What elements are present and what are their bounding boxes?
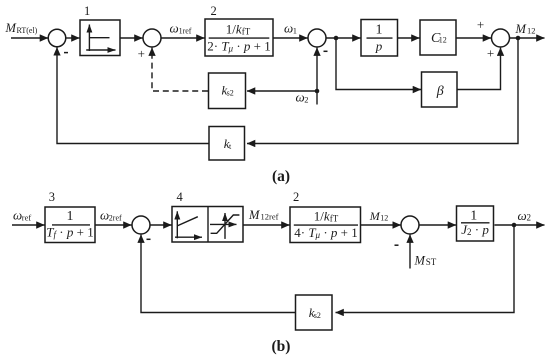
block 1 icon: x-axis arrow xyxy=(86,49,115,51)
label C12 xyxy=(431,31,447,46)
minus sign at Sb2 xyxy=(395,244,399,246)
dashed wire ks2 output to S2 bottom xyxy=(152,48,208,91)
label omega_2ref xyxy=(100,208,122,223)
svg-text:C12: C12 xyxy=(431,31,447,46)
wire block 1 to summing junction S2 xyxy=(120,37,143,39)
block 4 PI icon: x-axis arrow xyxy=(175,236,202,238)
svg-text:+: + xyxy=(477,17,484,32)
wire M_RT(el) input arrow into summing junction S1 xyxy=(11,37,48,39)
svg-text:ω2: ω2 xyxy=(518,208,532,223)
wire Sb1 to block 4 xyxy=(150,224,172,226)
svg-text:4· Tμ · p + 1: 4· Tμ · p + 1 xyxy=(294,225,358,240)
wire Sb2 to block J2p xyxy=(419,224,456,226)
label M12 (b) xyxy=(369,209,389,223)
summing junction S3 xyxy=(308,29,326,47)
svg-text:(b): (b) xyxy=(272,338,291,355)
wire omega_ref input arrow into block 3 xyxy=(12,224,45,226)
wire beta output up into S4 bottom xyxy=(457,48,501,90)
label 3 above block xyxy=(49,190,55,204)
block 2 (b) denominator xyxy=(294,225,358,240)
block 1 (P controller) xyxy=(80,20,120,56)
block 3 transfer function xyxy=(45,207,95,243)
caption (a) xyxy=(272,168,290,185)
block 4 limiter icon: y-axis arrow xyxy=(224,213,226,239)
summing junction S1 xyxy=(48,29,66,47)
label omega_2 (a) xyxy=(296,90,309,105)
svg-text:1: 1 xyxy=(67,209,74,224)
svg-text:ω2: ω2 xyxy=(296,90,309,105)
block 4 PI icon: y-axis arrow xyxy=(176,211,178,238)
wire S2 to block 2 xyxy=(161,37,205,39)
wire M_ST input up into Sb2 bottom xyxy=(409,235,411,269)
wire omega_2 input from below into S3 xyxy=(316,48,318,105)
svg-text:1/kfT: 1/kfT xyxy=(314,208,339,223)
block kt xyxy=(209,127,245,161)
svg-text:1/kfT: 1/kfT xyxy=(226,22,251,37)
feedback wire ks2 (b) left then up into Sb1 bottom xyxy=(141,235,296,313)
plus sign above left of S4 xyxy=(477,17,484,32)
summing junction S4 xyxy=(492,29,510,47)
svg-text:J2 · p: J2 · p xyxy=(461,222,489,237)
block 2 (b) fraction bar xyxy=(294,224,358,226)
block 1 icon: y-axis arrow xyxy=(88,25,90,52)
summing junction S2 xyxy=(143,29,161,47)
svg-text:(a): (a) xyxy=(272,168,290,185)
wire block 3 to summing junction Sb1 xyxy=(95,224,132,226)
svg-text:+: + xyxy=(487,46,494,61)
label 2 above block xyxy=(211,4,217,18)
minus sign at S3 xyxy=(324,50,328,52)
wire S3 to block 1/p xyxy=(326,37,361,39)
minus sign at S1 xyxy=(64,52,68,54)
svg-text:2: 2 xyxy=(211,4,217,18)
wire block 2 (b) to summing junction Sb2 xyxy=(361,224,401,226)
label kt xyxy=(224,136,232,151)
svg-text:ω2ref: ω2ref xyxy=(100,208,122,223)
block 3 fraction bar xyxy=(52,224,90,226)
block 1/p fraction bar xyxy=(367,37,393,39)
label omega_1 xyxy=(284,20,297,35)
svg-text:kt: kt xyxy=(224,136,232,151)
label M12 xyxy=(515,22,536,36)
feedback wire kt to left then up into S1 bottom xyxy=(57,47,209,143)
plus sign at S2 xyxy=(138,46,145,61)
label 4 above block xyxy=(177,190,184,204)
junction dot at M12 xyxy=(516,36,521,41)
wire C12 to summing junction S4 xyxy=(456,37,491,39)
block ks2 (a) xyxy=(209,73,246,109)
block 4 divider xyxy=(207,207,209,243)
wire S1 to block 1 xyxy=(66,37,80,39)
block J fraction bar xyxy=(461,222,490,224)
block 2 numerator 1/kfT xyxy=(226,22,251,37)
svg-text:Tf · p + 1: Tf · p + 1 xyxy=(46,225,93,240)
minus sign at Sb1 xyxy=(147,238,151,240)
block 4 (PI controller with limiter) xyxy=(172,207,243,243)
junction dot after S3 xyxy=(334,36,339,41)
block 2 (b) transfer function xyxy=(290,207,361,243)
junction dot on omega_2 line xyxy=(315,89,320,94)
block 4 limiter icon: saturation curve xyxy=(211,215,240,233)
label M12ref xyxy=(248,208,279,222)
wire block J to output omega_2 xyxy=(495,224,545,226)
wire 1/p to C12 xyxy=(398,37,420,39)
label beta xyxy=(436,84,444,99)
block 1/(J2 p) xyxy=(457,206,494,241)
svg-text:p: p xyxy=(375,39,383,54)
feedback wire omega_2 down and left into ks2 (b) xyxy=(336,225,515,313)
svg-text:3: 3 xyxy=(49,190,55,204)
wire omega_2 junction to ks2 block xyxy=(247,90,317,92)
summing junction Sb2 xyxy=(401,216,419,234)
block 3 denominator xyxy=(46,225,93,240)
svg-text:ω1ref: ω1ref xyxy=(170,20,192,35)
block 1/p denominator xyxy=(375,39,383,54)
block 1/p xyxy=(361,20,398,57)
caption (b) xyxy=(272,338,291,355)
block J denominator xyxy=(461,222,489,237)
summing junction Sb1 xyxy=(132,216,150,234)
label M_ST xyxy=(414,254,437,268)
block J numerator xyxy=(470,209,477,224)
block 3 numerator xyxy=(67,209,74,224)
block 2 denominator xyxy=(207,39,271,54)
svg-text:ks2: ks2 xyxy=(309,305,321,320)
svg-text:4: 4 xyxy=(177,190,184,204)
svg-text:ω1: ω1 xyxy=(284,20,297,35)
block 2 transfer function xyxy=(205,19,273,56)
label 2 above block (b) xyxy=(293,190,299,204)
block 1/p numerator xyxy=(376,23,383,38)
svg-text:2: 2 xyxy=(293,190,299,204)
label ks2 (a) xyxy=(222,83,234,98)
wire block 2 to summing junction S3, label omega_1 xyxy=(273,37,308,39)
label 1 above block xyxy=(84,4,90,18)
junction dot at omega_2 output xyxy=(512,223,517,228)
svg-text:2· Tμ · p + 1: 2· Tμ · p + 1 xyxy=(207,39,271,54)
block 4 PI icon: ramp line xyxy=(178,217,198,226)
svg-text:M12ref: M12ref xyxy=(248,208,279,222)
svg-text:M12: M12 xyxy=(369,209,389,223)
block 2 (b) numerator 1/kfT xyxy=(314,208,339,223)
svg-text:1: 1 xyxy=(84,4,90,18)
label M_RT(el) input of diagram (a) xyxy=(5,21,38,35)
block 4 limiter icon: x-axis arrow xyxy=(210,223,237,225)
plus sign below left of S4 xyxy=(487,46,494,61)
block ks2 (b) xyxy=(296,295,333,330)
block 2 fraction bar xyxy=(209,37,270,39)
feedback wire M12 down and left into kt block xyxy=(247,38,518,144)
wire block 4 to block 2 (b), label M12ref xyxy=(243,224,290,226)
block 1 icon: step response line xyxy=(89,37,109,39)
label omega_ref input of diagram (b) xyxy=(13,208,31,223)
svg-text:ωref: ωref xyxy=(13,208,31,223)
label omega_2 output xyxy=(518,208,532,223)
label ks2 (b) xyxy=(309,305,321,320)
block C12 xyxy=(420,20,456,55)
branch wire from node after S3 down and right into beta block xyxy=(336,38,421,90)
svg-text:+: + xyxy=(138,46,145,61)
svg-text:MRT(el): MRT(el) xyxy=(5,21,38,35)
wire S4 to output M12 xyxy=(510,37,545,39)
svg-text:ks2: ks2 xyxy=(222,83,234,98)
svg-text:β: β xyxy=(436,84,444,99)
svg-text:1: 1 xyxy=(376,23,383,38)
svg-text:M12: M12 xyxy=(515,22,536,36)
block beta xyxy=(422,72,458,107)
svg-text:MST: MST xyxy=(414,254,437,268)
label omega_1ref xyxy=(170,20,192,35)
